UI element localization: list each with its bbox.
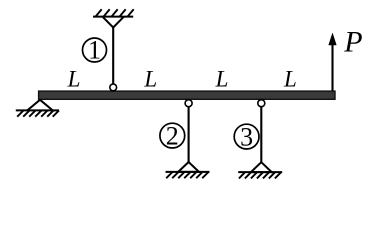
label circle 3 <box>234 122 259 151</box>
label P <box>343 25 362 58</box>
svg-text:P: P <box>343 25 362 58</box>
length label L segment 1 <box>67 67 81 92</box>
svg-text:L: L <box>143 67 157 92</box>
length label L segment 4 <box>283 67 297 92</box>
hinge 2 (below beam) <box>185 100 192 107</box>
rod 1 top fixed support (ceiling) <box>93 9 134 27</box>
label circle 1 <box>83 36 107 65</box>
beam <box>39 91 335 99</box>
rod 2 <box>188 107 190 163</box>
hinge 1 (on top of beam) <box>110 84 117 91</box>
length label L segment 2 <box>143 67 157 92</box>
svg-text:L: L <box>283 67 297 92</box>
rod 2 bottom fixed support <box>166 162 210 178</box>
length label L segment 3 <box>215 67 229 92</box>
pin support A (left end) <box>16 100 59 117</box>
svg-text:L: L <box>215 67 229 92</box>
svg-text:2: 2 <box>166 121 179 150</box>
force P arrow <box>329 33 337 91</box>
svg-text:3: 3 <box>240 122 253 151</box>
rod 3 bottom fixed support <box>238 162 282 178</box>
label circle 2 <box>160 121 185 150</box>
hinge 3 (below beam) <box>258 100 265 107</box>
svg-text:1: 1 <box>88 36 101 65</box>
svg-text:L: L <box>67 67 81 92</box>
rod 1 <box>112 26 114 84</box>
rod 3 <box>260 107 262 163</box>
